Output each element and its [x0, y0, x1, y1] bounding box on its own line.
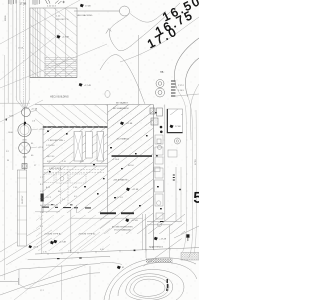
svg-text:+ ROOM TYPE +: + ROOM TYPE +	[48, 140, 66, 142]
svg-text:KERB: KERB	[5, 15, 7, 21]
svg-text:+17.3: +17.3	[38, 147, 44, 149]
big digit 5 clipped	[194, 192, 201, 202]
svg-text:17.08: 17.08	[85, 6, 91, 8]
svg-text:+17.49: +17.49	[59, 242, 67, 244]
pool rectangle	[167, 109, 183, 133]
svg-text:+ELITMAN A: +ELITMAN A	[116, 138, 129, 141]
black tick row	[42, 204, 91, 208]
svg-text:+ROOM TYPE B+: +ROOM TYPE B+	[78, 234, 96, 236]
kerb horizontal at funnel	[0, 102, 30, 104]
dashed boxes lower rooms	[44, 174, 86, 183]
circle landmark top	[120, 6, 130, 16]
svg-text:+17.49: +17.49	[159, 239, 167, 241]
road strip left: vertical kerb lines	[4, 0, 29, 280]
building top-left: hatched block	[30, 6, 77, 78]
hall hatch	[108, 105, 154, 214]
svg-text:1.2: 1.2	[40, 219, 43, 221]
svg-text:3.10: 3.10	[150, 247, 154, 249]
svg-text:+17.3: +17.3	[33, 247, 39, 249]
svg-text:BK GEB TEGENOVER: BK GEB TEGENOVER	[112, 227, 133, 229]
main plan block	[41, 105, 186, 251]
svg-text:A 1: A 1	[40, 197, 43, 200]
corridor	[43, 163, 108, 165]
svg-text:17.08: 17.08	[18, 48, 24, 50]
svg-text:+17.48: +17.48	[31, 109, 38, 111]
svg-text:BK 04: BK 04	[128, 165, 134, 167]
dark tree bottom	[166, 279, 168, 291]
svg-text:+1.20 A: +1.20 A	[112, 158, 120, 161]
svg-text:1.7: 1.7	[40, 177, 43, 179]
svg-text:17.50: 17.50	[195, 159, 197, 165]
left circle chain	[18, 107, 31, 170]
svg-text:+17.08: +17.08	[62, 37, 70, 39]
lower rooms below plan	[35, 205, 146, 254]
verticals right margin	[177, 88, 197, 258]
svg-text:+17.2: +17.2	[46, 197, 52, 199]
chevron arrow	[106, 29, 111, 34]
svg-text:K 3: K 3	[40, 226, 43, 228]
svg-text:+17.42: +17.42	[39, 129, 46, 131]
svg-text:1.25 0.80: 1.25 0.80	[46, 145, 55, 147]
svg-text:1.75: 1.75	[68, 250, 72, 252]
top edge tick clutter	[9, 0, 65, 5]
dimension lines	[28, 248, 199, 260]
svg-text:12.50 8.20 4.15: 12.50 8.20 4.15	[44, 205, 59, 207]
small ellipse near plan top	[105, 91, 110, 98]
svg-text:+17.08: +17.08	[126, 123, 134, 125]
spot marker building interior	[57, 35, 70, 39]
svg-text:+BK 2.40: +BK 2.40	[46, 156, 55, 158]
svg-text:C 4: C 4	[40, 212, 43, 214]
spot marker top	[80, 4, 91, 8]
contour wiggle from circle	[109, 3, 180, 51]
svg-text:+BK A HABITE +: +BK A HABITE +	[113, 179, 130, 182]
leaders + tiny labels next to circles	[30, 110, 38, 148]
contour elevation labels	[147, 0, 200, 48]
svg-text:B 2: B 2	[40, 184, 43, 186]
small S contour right of circle	[130, 11, 167, 22]
svg-text:W: W	[7, 160, 9, 162]
right wing rooms	[147, 105, 182, 227]
small equipment top right of plan	[150, 108, 163, 125]
svg-text:HB: HB	[160, 71, 164, 74]
bottom-left parcel	[0, 264, 100, 300]
supply duct vertical bar	[17, 170, 26, 246]
dark L stair blob	[41, 194, 44, 202]
spot marker right of building	[79, 83, 92, 87]
svg-text:P 17.2: P 17.2	[178, 85, 185, 87]
heavy interior wall in hall	[112, 155, 153, 157]
svg-text:+17.49: +17.49	[84, 85, 92, 87]
svg-text:BK SAABKT: BK SAABKT	[116, 102, 129, 105]
right contour arcs	[174, 38, 199, 88]
svg-text:17.08: 17.08	[175, 126, 181, 128]
top boundary line to circle	[74, 10, 120, 12]
svg-text:+ROOM TYPE A+: +ROOM TYPE A+	[44, 233, 62, 236]
svg-text:SUPPLY: SUPPLY	[22, 195, 24, 204]
thick south walls	[100, 212, 116, 214]
right label column	[40, 177, 43, 228]
svg-text:1.5: 1.5	[40, 191, 43, 193]
svg-text:BK SHAMSATH: BK SHAMSATH	[113, 107, 129, 110]
scattered marks in plan	[47, 112, 162, 209]
svg-text:17.08: 17.08	[20, 2, 27, 6]
svg-text:0.9: 0.9	[40, 205, 43, 207]
bottom right block	[146, 225, 199, 258]
walls	[43, 126, 108, 128]
svg-text:VOLGT BAANDAK: VOLGT BAANDAK	[114, 228, 132, 231]
funnel into circle chain	[16, 100, 29, 108]
svg-text:+17.08: +17.08	[132, 189, 140, 191]
svg-text:+17.1 K: +17.1 K	[116, 197, 124, 199]
svg-text:+17.49: +17.49	[131, 220, 139, 222]
bottom contour loops	[104, 258, 197, 300]
dashed service lines	[44, 166, 104, 204]
svg-text:4.20: 4.20	[100, 249, 104, 251]
svg-text:HELI BACKING: HELI BACKING	[77, 14, 93, 17]
svg-text:1.75: 1.75	[43, 251, 47, 253]
svg-text:K 16.9: K 16.9	[178, 90, 185, 92]
hatch bands bottom	[146, 258, 173, 263]
shafts	[74, 132, 82, 162]
svg-text:4.20 11.5: 4.20 11.5	[47, 6, 57, 8]
manhole double circles	[156, 80, 165, 98]
upper hatched band over plan	[35, 105, 108, 127]
legend stack	[171, 81, 176, 97]
svg-text:PROJECT G: PROJECT G	[56, 19, 69, 21]
lower contour arc	[100, 55, 145, 104]
svg-text:HECU BUILDING: HECU BUILDING	[50, 96, 69, 99]
stairs	[45, 57, 78, 75]
long diagonal sight lines	[0, 0, 107, 300]
road diagonals lower-left	[0, 228, 52, 265]
